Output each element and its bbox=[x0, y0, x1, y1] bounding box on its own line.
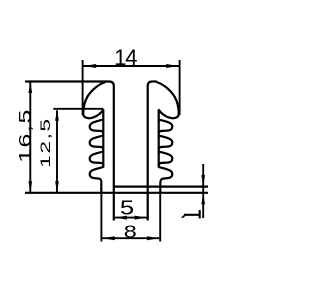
left barb 2 bbox=[90, 136, 104, 150]
right barb 2 bbox=[159, 136, 173, 150]
arrowhead 16,5 up bbox=[28, 83, 32, 94]
arrowhead 12,5 up bbox=[55, 110, 59, 121]
right lip underside bbox=[159, 109, 179, 118]
svg-text:16,5: 16,5 bbox=[16, 108, 34, 163]
dimension line 8 horizontal bbox=[102, 237, 159, 239]
right lip outer arc bbox=[157, 82, 179, 115]
dimension line 1 lower segment bbox=[202, 193, 204, 218]
extension line 12,5 horizontal bbox=[53, 108, 103, 110]
arrowhead 16,5 down bbox=[28, 181, 32, 192]
dimension line 16,5 vertical bbox=[29, 83, 31, 193]
dimension text 1 rotated, drawn as path with foot serif bbox=[184, 210, 200, 218]
extension line 14 left bbox=[82, 60, 84, 115]
dimension line 12,5 vertical bbox=[56, 110, 58, 192]
dimension line 5 horizontal bbox=[115, 217, 148, 219]
left barb 3 bbox=[90, 152, 104, 166]
svg-text:14: 14 bbox=[114, 45, 137, 70]
arrowhead 8 right bbox=[147, 236, 159, 240]
arrowhead 5 right bbox=[135, 216, 147, 220]
left barb 4 with bottom flare to base bbox=[90, 167, 104, 193]
right barb 3 bbox=[159, 152, 173, 166]
left barb 1 bbox=[90, 120, 104, 134]
arrowhead 12,5 down bbox=[55, 181, 59, 192]
left lip outer arc bbox=[83, 82, 105, 115]
arrowhead 1 up bbox=[201, 194, 205, 205]
right barb 4 with bottom flare to base bbox=[159, 167, 173, 193]
svg-text:12,5: 12,5 bbox=[38, 117, 54, 167]
extension line 8 left bbox=[100, 194, 102, 242]
profile right top edge and right slot wall bbox=[148, 82, 157, 221]
arrowhead 5 left bbox=[115, 216, 127, 220]
left lip underside bbox=[83, 109, 103, 118]
extension line 14 right bbox=[179, 60, 181, 115]
profile base top line with thickness extension to right bbox=[114, 186, 208, 188]
arrowhead 8 left bbox=[103, 236, 115, 240]
right barb 1 bbox=[159, 120, 173, 134]
extension line 8 right bbox=[159, 194, 161, 242]
dimension line 1 upper segment bbox=[202, 164, 204, 192]
arrowhead 1 down bbox=[201, 175, 205, 186]
left leg outer edge bbox=[102, 109, 104, 167]
profile top edge with 16,5 extension overlap and left slot corner bbox=[25, 82, 114, 221]
arrowhead 14 right bbox=[166, 64, 179, 68]
profile base bottom line with extensions both sides bbox=[25, 192, 208, 194]
right leg outer edge bbox=[158, 109, 160, 167]
dimension line 14 horizontal bbox=[83, 65, 179, 67]
svg-text:5: 5 bbox=[120, 196, 134, 219]
svg-text:8: 8 bbox=[124, 222, 137, 242]
arrowhead 14 left bbox=[84, 64, 97, 68]
